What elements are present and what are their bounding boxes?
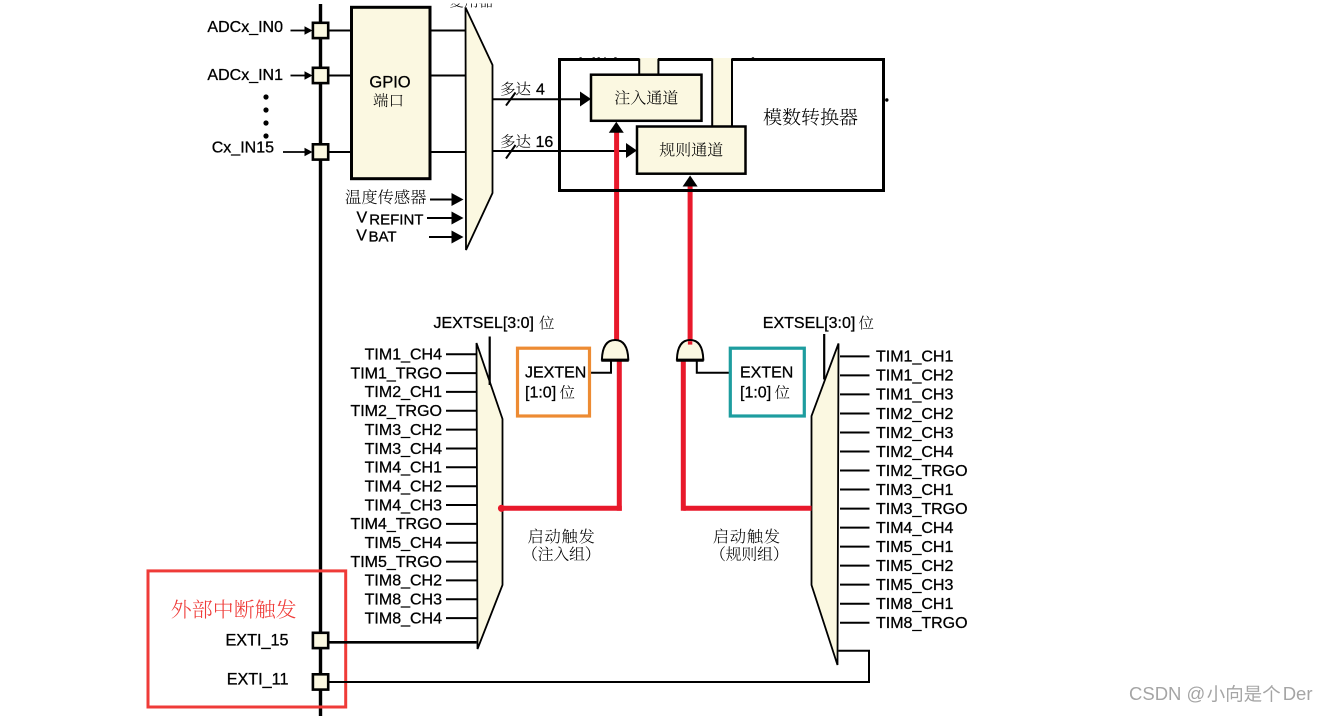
label JEXTSEL[3:0] 位 — [434, 315, 554, 332]
svg-text:TIM5_CH1: TIM5_CH1 — [876, 539, 953, 556]
svg-text:EXTEN: EXTEN — [740, 365, 793, 382]
arrow VBAT into mux — [429, 231, 464, 244]
input TIM1_TRGO with stub wire — [350, 365, 476, 382]
wire EXTEN box to regular gate — [697, 360, 731, 373]
red wire injected trigger horizontal from JEXTSEL mux — [502, 506, 622, 511]
svg-text:TIM8_CH3: TIM8_CH3 — [365, 592, 442, 609]
svg-text:TIM5_CH2: TIM5_CH2 — [876, 558, 953, 575]
wire ADCx_IN1 node to GPIO box — [328, 75, 351, 77]
label 模数转换器 — [764, 108, 858, 126]
arrowhead into 规则通道 bottom — [683, 176, 698, 187]
svg-text:TIM4_CH2: TIM4_CH2 — [365, 479, 442, 496]
svg-text:EXTI_15: EXTI_15 — [226, 632, 289, 650]
wire Cx_IN15 node to GPIO box — [328, 151, 351, 153]
arrow 温度传感器 into mux — [430, 193, 464, 206]
red wire regular trigger vertical below gate — [681, 361, 686, 511]
input TIM8_CH2 with stub wire — [365, 573, 477, 590]
main vertical bus wire — [319, 4, 322, 716]
label EXTEN [1:0] 位 — [740, 365, 793, 402]
label 多达 4 (up to 4) — [501, 82, 545, 99]
input label ADCx_IN1 — [207, 67, 283, 84]
select line into EXTSEL mux — [823, 334, 825, 380]
svg-text:Der: Der — [1283, 683, 1313, 704]
input TIM1_CH3 with stub wire — [840, 387, 953, 404]
input label ADCx_IN0 — [207, 19, 283, 36]
svg-text:TIM5_CH4: TIM5_CH4 — [365, 535, 442, 552]
label EXTSEL[3:0] 位 — [763, 315, 874, 332]
label 启动触发（注入组） — [528, 529, 594, 562]
input TIM1_CH2 with stub wire — [840, 368, 953, 385]
register bus bar 2 (to regular data register) — [712, 58, 732, 127]
input TIM4_CH3 with stub wire — [365, 497, 477, 514]
svg-text:TIM4_TRGO: TIM4_TRGO — [350, 516, 442, 533]
svg-text:TIM8_CH1: TIM8_CH1 — [876, 596, 953, 613]
input TIM2_TRGO with stub wire — [840, 463, 968, 480]
red wire injected trigger vertical above gate — [614, 130, 619, 342]
svg-text:TIM1_CH1: TIM1_CH1 — [876, 349, 953, 366]
svg-text:BAT: BAT — [369, 229, 397, 246]
input TIM8_TRGO with stub wire — [840, 615, 968, 632]
svg-text:TIM1_TRGO: TIM1_TRGO — [350, 365, 442, 382]
input TIM4_TRGO with stub wire — [350, 516, 476, 533]
svg-text:TIM2_CH4: TIM2_CH4 — [876, 444, 953, 461]
label 启动触发（规则组） — [713, 529, 779, 562]
arrowhead into 注入通道 bottom — [609, 122, 624, 133]
input TIM1_CH1 with stub wire — [840, 349, 953, 366]
svg-text:TIM1_CH2: TIM1_CH2 — [876, 368, 953, 385]
svg-text:TIM3_CH2: TIM3_CH2 — [365, 422, 442, 439]
svg-text:TIM3_CH1: TIM3_CH1 — [876, 482, 953, 499]
wire EXTI_11 bottom route to EXTSEL mux — [328, 651, 869, 682]
input TIM1_CH4 with stub wire — [365, 347, 477, 364]
svg-text:Cx_IN15: Cx_IN15 — [212, 140, 274, 157]
label 注入通道 — [615, 90, 678, 105]
input TIM5_CH1 with stub wire — [840, 539, 953, 556]
svg-text:TIM4_CH1: TIM4_CH1 — [365, 460, 442, 477]
node square EXTI_15 — [313, 633, 328, 648]
input TIM5_TRGO with stub wire — [350, 554, 476, 571]
external interrupt trigger red frame — [148, 571, 346, 707]
input TIM4_CH1 with stub wire — [365, 460, 477, 477]
label 规则通道 — [660, 142, 723, 157]
red wire regular trigger horizontal from EXTSEL mux — [683, 506, 811, 511]
input TIM4_CH4 with stub wire — [840, 520, 953, 537]
clipped label 复用器 at top — [450, 0, 494, 8]
input TIM2_CH1 with stub wire — [365, 384, 477, 401]
AND gate regular trigger — [676, 340, 703, 360]
svg-text:TIM2_CH1: TIM2_CH1 — [365, 384, 442, 401]
wire GPIO box to input mux row ADCx_IN0 — [430, 30, 466, 32]
label 多达 16 (up to 16) — [501, 134, 553, 151]
svg-text:TIM8_CH4: TIM8_CH4 — [365, 610, 442, 627]
wire mux to regular channel box with slash — [493, 143, 638, 159]
svg-text:TIM5_TRGO: TIM5_TRGO — [350, 554, 442, 571]
clipped text marks on ADC top border — [580, 57, 755, 59]
label 外部中断触发 red — [172, 599, 296, 618]
ADC converter box 模数转换器 — [560, 60, 884, 191]
input TIM2_CH2 with stub wire — [840, 406, 953, 423]
node square Cx_IN15 — [313, 144, 328, 159]
svg-text:TIM2_TRGO: TIM2_TRGO — [350, 403, 442, 420]
input TIM2_CH4 with stub wire — [840, 444, 953, 461]
regular channel box 规则通道 — [637, 127, 746, 174]
label GPIO 端口 — [369, 74, 410, 108]
select line into JEXTSEL mux — [489, 337, 491, 386]
svg-text:TIM8_TRGO: TIM8_TRGO — [876, 615, 968, 632]
input TIM3_TRGO with stub wire — [840, 501, 968, 518]
arrow VREFINT into mux — [427, 212, 464, 225]
svg-text:TIM2_CH2: TIM2_CH2 — [876, 406, 953, 423]
red wire regular trigger vertical above gate — [688, 184, 693, 344]
input TIM5_CH2 with stub wire — [840, 558, 953, 575]
input TIM3_CH2 with stub wire — [365, 422, 477, 439]
node square EXTI_11 — [313, 674, 328, 689]
svg-text:ADCx_IN0: ADCx_IN0 — [207, 19, 283, 36]
arrow ADCx_IN1 to node — [291, 71, 313, 79]
input TIM8_CH3 with stub wire — [365, 592, 477, 609]
injected channel box 注入通道 — [591, 75, 702, 121]
input TIM2_TRGO with stub wire — [350, 403, 476, 420]
input TIM8_CH1 with stub wire — [840, 596, 953, 613]
wire JEXTEN box to injected gate — [590, 360, 612, 373]
label EXTI_15 — [226, 632, 289, 650]
svg-text:GPIO: GPIO — [369, 74, 410, 92]
red sliver at regular gate apex — [688, 341, 692, 344]
svg-text:TIM5_CH3: TIM5_CH3 — [876, 577, 953, 594]
svg-text:TIM4_CH3: TIM4_CH3 — [365, 497, 442, 514]
wire EXTI_15 to JEXTSEL mux — [328, 641, 476, 644]
svg-text:TIM4_CH4: TIM4_CH4 — [876, 520, 953, 537]
input TIM8_CH4 with stub wire — [365, 610, 477, 627]
ADC box bottom border redrawn over red wires — [558, 189, 885, 192]
svg-text:EXTI_11: EXTI_11 — [227, 671, 289, 689]
svg-text:TIM1_CH4: TIM1_CH4 — [365, 347, 442, 364]
input label Cx_IN15 — [212, 140, 274, 157]
wire mux to injected channel box with slash — [493, 92, 592, 107]
node square ADCx_IN1 — [313, 68, 328, 83]
watermark CSDN @小向是个Der — [1129, 683, 1313, 704]
input TIM3_CH1 with stub wire — [840, 482, 953, 499]
wire GPIO box to input mux row ADCx_IN1 — [430, 75, 466, 77]
svg-text:REFINT: REFINT — [369, 211, 423, 228]
red wire injected trigger vertical below gate — [617, 361, 622, 511]
svg-text:EXTSEL[3:0]: EXTSEL[3:0] — [763, 315, 856, 332]
svg-text:V: V — [356, 227, 367, 244]
label VBAT — [356, 227, 396, 245]
svg-text:TIM2_TRGO: TIM2_TRGO — [876, 463, 968, 480]
register bus bar 1 (to injected data register) — [639, 58, 658, 76]
svg-text:TIM2_CH3: TIM2_CH3 — [876, 425, 953, 442]
svg-text:[1:0]: [1:0] — [525, 384, 556, 401]
EXTSEL mux trapezoid — [812, 344, 839, 666]
GPIO port box — [352, 7, 431, 178]
svg-text:TIM3_TRGO: TIM3_TRGO — [876, 501, 968, 518]
label 温度传感器 temperature sensor — [346, 189, 426, 204]
JEXTSEL mux trapezoid — [477, 343, 503, 649]
AND gate injected trigger — [601, 340, 628, 360]
svg-text:JEXTEN: JEXTEN — [525, 365, 586, 382]
input TIM5_CH3 with stub wire — [840, 577, 953, 594]
svg-text:TIM3_CH4: TIM3_CH4 — [365, 441, 442, 458]
wire GPIO box to input mux row Cx_IN15 — [430, 151, 466, 153]
label VREFINT — [357, 209, 424, 228]
input TIM4_CH2 with stub wire — [365, 479, 477, 496]
JEXTEN control box — [518, 348, 590, 416]
svg-text:16: 16 — [536, 134, 554, 151]
svg-text:TIM8_CH2: TIM8_CH2 — [365, 573, 442, 590]
ellipsis dots (channels continue) — [263, 94, 268, 138]
svg-text:4: 4 — [536, 82, 545, 99]
input TIM5_CH4 with stub wire — [365, 535, 477, 552]
input TIM2_CH3 with stub wire — [840, 425, 953, 442]
label JEXTEN [1:0] 位 — [525, 365, 586, 402]
svg-text:JEXTSEL[3:0]: JEXTSEL[3:0] — [434, 315, 535, 332]
svg-text:TIM1_CH3: TIM1_CH3 — [876, 387, 953, 404]
svg-text:CSDN @: CSDN @ — [1129, 683, 1205, 704]
input TIM3_CH4 with stub wire — [365, 441, 477, 458]
EXTEN control box — [730, 348, 804, 416]
node square ADCx_IN0 — [313, 23, 328, 38]
input mux trapezoid (analog mux) — [466, 8, 493, 251]
stray dot right of ADC box — [885, 98, 888, 101]
svg-text:[1:0]: [1:0] — [740, 384, 771, 401]
svg-text:V: V — [357, 209, 368, 226]
wire ADCx_IN0 node to GPIO box — [328, 30, 351, 32]
junction dot on JEXTSEL mux output — [498, 505, 505, 512]
svg-text:ADCx_IN1: ADCx_IN1 — [207, 67, 283, 84]
arrow ADCx_IN0 to node — [291, 26, 313, 34]
arrow Cx_IN15 to node — [283, 148, 313, 156]
label EXTI_11 — [227, 671, 289, 689]
